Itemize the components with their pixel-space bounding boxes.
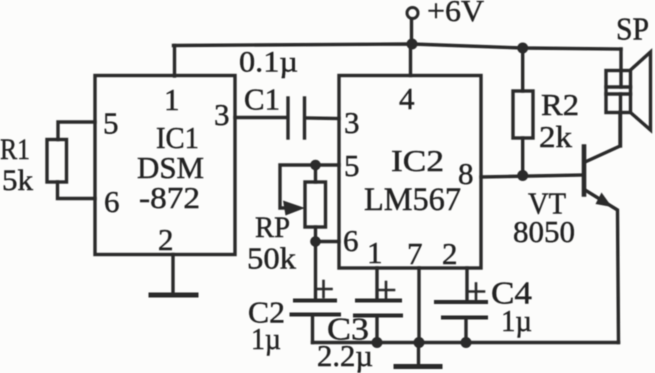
speaker SP coil box	[606, 71, 631, 113]
op-amp IC1 DSM-872 box	[95, 76, 235, 255]
svg-text:7: 7	[407, 236, 423, 271]
transistor VT emitter	[585, 190, 619, 343]
wire bottom ground rail	[313, 341, 619, 344]
svg-text:R2: R2	[541, 87, 579, 122]
wire R2 bottom lead	[521, 138, 524, 176]
svg-text:2.2µ: 2.2µ	[317, 338, 373, 373]
wire IC1 pin2 lead	[171, 255, 174, 296]
wire pin6 to IC2	[316, 240, 340, 243]
svg-text:50k: 50k	[247, 241, 297, 276]
junction dot R2 / base wire	[517, 170, 528, 181]
ground under IC1	[151, 293, 196, 298]
wire IC1 pin3 to C1	[235, 116, 287, 119]
svg-text:5: 5	[103, 106, 119, 141]
svg-text:8050: 8050	[513, 214, 575, 249]
wire C2 bottom lead	[311, 315, 314, 343]
junction dot RP top	[310, 160, 321, 171]
junction dot pin7 / rail	[414, 337, 425, 348]
wire IC2 pin8 to transistor base	[481, 175, 584, 177]
svg-text:1: 1	[367, 235, 383, 270]
junction dot C4 / rail	[461, 337, 472, 348]
junction dot C3 / rail	[372, 337, 383, 348]
svg-text:LM567: LM567	[364, 182, 461, 218]
wire C2 top lead	[314, 242, 317, 301]
svg-text:2: 2	[442, 236, 458, 271]
wire IC1 pin1 lead	[173, 46, 176, 77]
resistor R1 body	[47, 140, 67, 183]
svg-text:SP: SP	[616, 11, 649, 47]
speaker SP mid lines	[606, 85, 631, 88]
node +6V terminal circle	[407, 8, 418, 19]
wire +6V lead down to rail	[410, 19, 413, 44]
svg-text:3: 3	[344, 105, 360, 140]
wire C4 bottom lead	[464, 318, 467, 343]
transistor VT base bar	[582, 147, 587, 195]
wire R1 bottom to IC1 pin6	[58, 182, 96, 199]
svg-text:C1: C1	[244, 82, 280, 117]
capacitor C1 plates	[288, 98, 305, 138]
capacitor C3 plus sign	[378, 282, 394, 298]
svg-text:2: 2	[158, 222, 174, 257]
svg-text:IC2: IC2	[391, 143, 444, 178]
wire speaker bottom lead	[619, 94, 622, 146]
svg-text:0.1µ: 0.1µ	[239, 46, 298, 79]
svg-text:RP: RP	[255, 211, 290, 244]
wire IC2 pin4 lead	[409, 44, 412, 76]
junction dot rail / R2	[517, 43, 528, 54]
svg-text:5k: 5k	[2, 164, 33, 197]
svg-text:R1: R1	[0, 133, 30, 166]
wire IC2 pin1 lead	[375, 268, 378, 300]
svg-text:6: 6	[343, 223, 359, 258]
svg-text:1µ: 1µ	[251, 321, 281, 356]
wire R2 top lead	[521, 48, 524, 91]
wire RP bottom terminal	[314, 227, 317, 242]
wire RP wiper loop	[280, 165, 315, 208]
svg-text:1µ: 1µ	[501, 303, 532, 338]
capacitor C4 plus sign	[468, 284, 484, 300]
svg-text:2k: 2k	[539, 119, 573, 154]
svg-text:6: 6	[104, 184, 120, 219]
wire IC2 pin7 lead	[417, 268, 420, 343]
svg-text:3: 3	[214, 97, 230, 132]
capacitor C3 plates	[355, 301, 401, 316]
wire IC2 pin2 lead	[465, 268, 468, 302]
svg-text:1: 1	[164, 82, 180, 117]
svg-text:4: 4	[399, 81, 415, 116]
transistor VT collector	[585, 113, 620, 163]
capacitor C2 plus sign	[316, 281, 332, 297]
wire RP top terminal	[314, 165, 317, 182]
svg-text:-872: -872	[139, 180, 200, 215]
potentiometer RP body	[305, 182, 326, 227]
junction dot rail / pin4	[407, 39, 418, 50]
capacitor C2 plates	[292, 301, 340, 315]
speaker SP cone	[631, 52, 651, 130]
wire IC1 pin5 to R1	[58, 122, 95, 140]
wire speaker top lead	[619, 49, 622, 87]
transistor VT emitter arrowhead	[596, 193, 613, 208]
capacitor C4 plates	[436, 302, 486, 318]
op-amp IC2 LM567 box	[339, 76, 481, 269]
ground under pin7	[417, 343, 420, 367]
wire C1 to IC2 pin3	[306, 116, 339, 120]
potentiometer RP wiper arrow	[283, 201, 305, 216]
wire IC2 pin5 to RP top	[315, 163, 339, 166]
resistor R2 body	[513, 91, 533, 138]
svg-text:5: 5	[344, 148, 360, 183]
svg-text:+6V: +6V	[427, 0, 485, 28]
wire top supply rail	[174, 44, 622, 49]
wire C3 bottom lead	[375, 316, 378, 343]
junction dot RP bottom / pin6	[310, 236, 321, 247]
